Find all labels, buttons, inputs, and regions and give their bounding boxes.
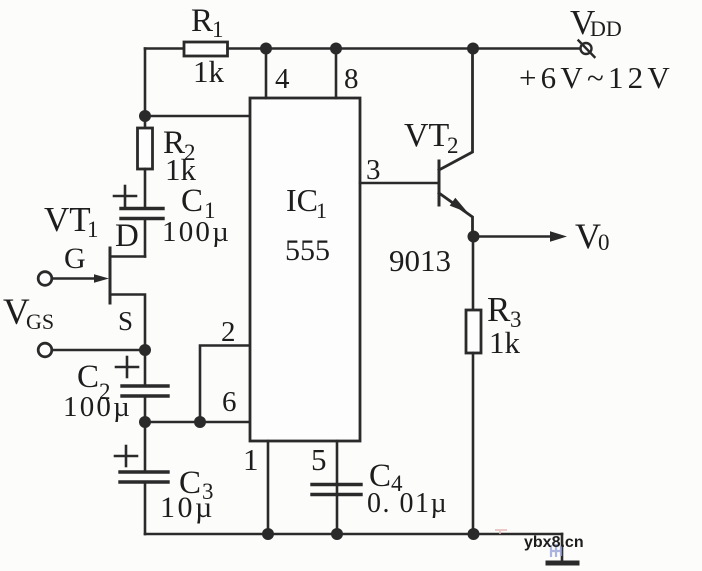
svg-text:1: 1 — [212, 17, 224, 42]
svg-text:R: R — [487, 290, 511, 329]
svg-text:1: 1 — [316, 198, 327, 223]
node rail-pin5 — [331, 528, 343, 540]
wire C2 to node — [144, 396, 147, 422]
wire node to C3 — [144, 422, 147, 472]
wire pin 5 — [336, 441, 339, 534]
watermark remnant blue glyph — [551, 544, 561, 557]
node rail-collector — [467, 43, 479, 55]
node rail-pin4 — [260, 43, 272, 55]
transistor VT2 emitter — [439, 193, 473, 237]
svg-text:4: 4 — [275, 63, 290, 95]
svg-text:100µ: 100µ — [162, 216, 231, 248]
svg-text:GS: GS — [26, 309, 54, 334]
wire pin 3 — [360, 182, 438, 185]
transistor VT2 collector — [439, 49, 473, 171]
node R2 top — [139, 110, 151, 122]
svg-text:10µ: 10µ — [160, 491, 215, 524]
wire pin6 horizontal — [145, 421, 250, 424]
node pin6 jumper — [194, 416, 206, 428]
svg-text:0: 0 — [598, 230, 610, 255]
VDD terminal — [581, 43, 592, 54]
wire bottom ground rail — [145, 533, 562, 536]
transistor VT1 drain lead — [110, 255, 145, 258]
svg-text:C: C — [77, 359, 99, 395]
capacitor C2 plus sign — [116, 366, 138, 369]
svg-text:9013: 9013 — [389, 243, 451, 278]
svg-text:1k: 1k — [165, 152, 197, 187]
svg-text:C: C — [181, 183, 203, 219]
node emitter-V0 — [468, 231, 480, 243]
svg-text:1: 1 — [243, 442, 259, 477]
transistor VT1 channel bar — [109, 248, 112, 303]
svg-text:1k: 1k — [489, 325, 521, 360]
svg-text:1k: 1k — [193, 54, 225, 89]
svg-text:D: D — [115, 218, 139, 254]
node rail-R3 — [468, 528, 480, 540]
wire source node to C2 — [144, 350, 147, 386]
svg-text:IC: IC — [286, 182, 318, 218]
svg-text:0. 01µ: 0. 01µ — [367, 488, 448, 519]
wire node junction to IC pin7 — [145, 115, 250, 118]
ground — [561, 534, 564, 561]
svg-text:2: 2 — [221, 316, 236, 348]
wire C3 to ground rail — [144, 482, 147, 534]
wire pin 1 — [267, 441, 270, 534]
capacitor C3 plus sign — [115, 455, 137, 458]
capacitor C3 — [120, 470, 168, 473]
wire V0 output — [474, 235, 553, 238]
wire top rail left segment — [145, 47, 185, 50]
transistor VT1 gate wire — [52, 277, 95, 280]
wire left vertical from rail to R2 — [144, 49, 147, 129]
node rail-pin1 — [262, 528, 274, 540]
wire VT2 emitter to R3 — [472, 237, 475, 311]
svg-text:100µ: 100µ — [63, 391, 132, 423]
svg-text:5: 5 — [311, 442, 327, 477]
transistor Q2 VT2 base bar — [438, 161, 441, 205]
wire VGS to source node — [52, 349, 145, 352]
wire pin 4 — [265, 49, 268, 99]
terminal VGS input — [38, 343, 52, 357]
node junction dots — [139, 43, 480, 541]
capacitor C2 — [122, 384, 168, 387]
wire jumper pin2 to pin6 — [200, 346, 250, 423]
resistor R1 — [184, 42, 228, 56]
wire pin 8 — [335, 49, 338, 99]
wire R3 to ground rail — [472, 353, 475, 534]
transistor VT1 source lead — [110, 295, 145, 351]
node C2 bottom — [139, 416, 151, 428]
svg-text:555: 555 — [285, 234, 330, 267]
wire top rail right segment to VDD terminal — [228, 47, 581, 50]
svg-text:G: G — [64, 242, 86, 275]
wire R2 bottom to C1 — [144, 169, 147, 208]
svg-text:S: S — [118, 306, 133, 336]
svg-text:DD: DD — [590, 16, 622, 41]
svg-text:2: 2 — [447, 133, 459, 158]
terminal G input — [38, 272, 52, 286]
svg-text:8: 8 — [344, 63, 359, 95]
svg-text:ybx8.cn: ybx8.cn — [524, 534, 584, 551]
svg-text:+6V~12V: +6V~12V — [519, 60, 674, 95]
node source-VGS — [139, 344, 151, 356]
capacitor C1 — [121, 207, 163, 210]
wire C1 to drain — [144, 219, 147, 257]
resistor R2 — [138, 128, 153, 169]
op-amp U1 IC1 555 box — [250, 98, 360, 441]
svg-text:6: 6 — [222, 386, 237, 418]
svg-text:R: R — [191, 3, 213, 39]
svg-text:VT: VT — [44, 200, 91, 239]
svg-text:3: 3 — [366, 154, 381, 186]
svg-text:VT: VT — [404, 117, 450, 154]
resistor R3 — [466, 310, 481, 353]
capacitor C1 plus sign — [114, 195, 136, 198]
capacitor C4 — [312, 483, 361, 486]
svg-text:1: 1 — [87, 217, 99, 242]
node rail-pin8 — [330, 43, 342, 55]
watermark remnant pink — [495, 529, 507, 534]
